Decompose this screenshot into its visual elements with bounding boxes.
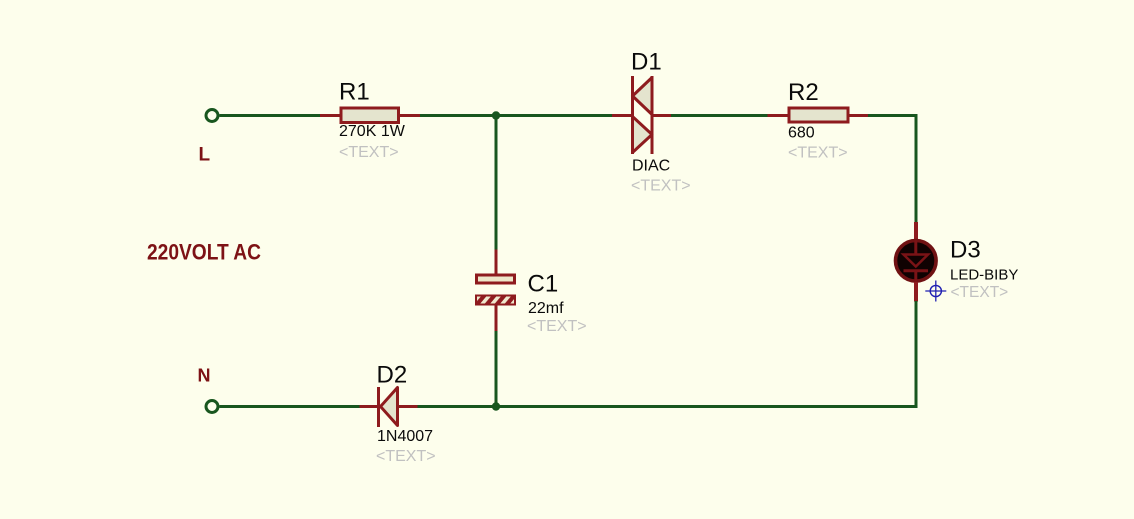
svg-text:D2: D2 xyxy=(377,362,408,389)
svg-text:270K 1W: 270K 1W xyxy=(339,123,406,140)
wire node B to right corner xyxy=(496,405,918,408)
svg-text:D3: D3 xyxy=(950,237,981,264)
led D3 cathode lead inside xyxy=(914,271,917,282)
wire C1 pin bottom (red) xyxy=(495,305,498,332)
svg-text:<TEXT>: <TEXT> xyxy=(631,178,691,195)
wire C1 pin top (red) xyxy=(495,250,498,276)
capacitor C1 top plate xyxy=(477,275,515,283)
wire D1 to R2 xyxy=(671,114,768,117)
wire D2 pin left (red) xyxy=(360,405,380,408)
diode D2 cathode bar xyxy=(377,387,380,427)
diode D2 triangle xyxy=(381,388,398,426)
svg-text:<TEXT>: <TEXT> xyxy=(339,144,399,161)
svg-text:<TEXT>: <TEXT> xyxy=(788,145,848,162)
diac D1 left electrode bar xyxy=(631,76,634,154)
svg-text:L: L xyxy=(199,145,211,166)
svg-text:<TEXT>: <TEXT> xyxy=(527,318,587,335)
wire D2 to node B xyxy=(418,405,497,408)
svg-text:<TEXT>: <TEXT> xyxy=(376,448,436,465)
capacitor C1 bottom plate (hatched) xyxy=(475,295,516,306)
led D3 body xyxy=(896,240,937,281)
wire R1 pin right (red) xyxy=(399,114,421,117)
svg-text:N: N xyxy=(198,366,211,386)
svg-text:220VOLT AC: 220VOLT AC xyxy=(147,240,261,265)
led D3 anode lead inside xyxy=(914,240,917,255)
resistor R2 xyxy=(789,108,848,122)
wire D1 pin left (red) xyxy=(612,114,633,117)
wire D2 pin right (red) xyxy=(398,405,418,408)
svg-text:DIAC: DIAC xyxy=(632,158,670,175)
led D3 cathode bar xyxy=(904,269,929,272)
terminal L xyxy=(206,110,218,122)
wire R1 to node A xyxy=(420,114,496,117)
svg-text:680: 680 xyxy=(788,125,815,142)
diac D1 upper triangle xyxy=(633,78,653,115)
wire R2 pin left (red) xyxy=(768,114,790,117)
wire R2 pin right (red) xyxy=(848,114,869,117)
wire node A to D1 xyxy=(496,114,613,117)
resistor R1 xyxy=(341,108,399,123)
origin marker D3 (blue) xyxy=(925,281,946,302)
diac D1 right electrode bar xyxy=(651,76,654,154)
node A junction dot xyxy=(492,111,500,119)
svg-text:R1: R1 xyxy=(339,79,370,106)
svg-text:C1: C1 xyxy=(528,271,559,298)
svg-text:<TEXT>: <TEXT> xyxy=(951,284,1009,301)
svg-text:R2: R2 xyxy=(788,79,819,106)
node B junction dot xyxy=(492,402,500,410)
wire R2 to right corner xyxy=(868,116,916,224)
svg-text:D1: D1 xyxy=(631,49,662,76)
terminal N xyxy=(206,401,218,413)
wire D1 pin right (red) xyxy=(652,114,672,117)
diac D1 lower triangle xyxy=(633,117,653,153)
wire R1 pin left (red) xyxy=(320,114,341,117)
wire D3 pin top (red) xyxy=(914,222,918,240)
wire node A to C1 (vertical) xyxy=(495,117,498,251)
wire D3 pin bottom (red) xyxy=(914,282,918,302)
led D3 triangle xyxy=(904,255,929,267)
svg-text:22mf: 22mf xyxy=(528,300,564,317)
wire top rail: terminal L to R1 xyxy=(220,114,322,117)
svg-text:1N4007: 1N4007 xyxy=(377,428,433,445)
wire D3 to bottom rail xyxy=(915,301,918,408)
wire C1 to bottom rail xyxy=(495,331,498,405)
svg-text:LED-BIBY: LED-BIBY xyxy=(950,267,1018,284)
wire bottom rail: terminal N to D2 xyxy=(220,405,361,408)
